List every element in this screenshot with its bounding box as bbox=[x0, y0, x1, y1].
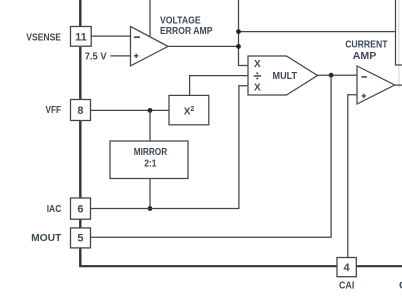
svg-text:MULT: MULT bbox=[273, 71, 298, 82]
svg-text:X: X bbox=[254, 82, 261, 93]
junction node MULT output bbox=[329, 73, 334, 78]
pin box 5 bbox=[71, 228, 91, 248]
svg-text:MOUT: MOUT bbox=[31, 232, 62, 244]
plus sign current amp bbox=[362, 94, 367, 99]
IC boundary bottom line bbox=[79, 265, 402, 267]
op-amp voltage error amp bbox=[131, 26, 169, 66]
svg-text:7.5 V: 7.5 V bbox=[85, 50, 107, 62]
junction node on bus at y=46.7 bbox=[236, 44, 241, 49]
wire: current amp output exits right bbox=[395, 84, 402, 86]
IC boundary left vertical (pin column) bbox=[79, 0, 81, 266]
wire: MULT output to current amp inverting input bbox=[318, 74, 358, 76]
wire: current amp + input down to pin 4 bbox=[348, 95, 357, 258]
pin box 8 bbox=[71, 100, 91, 121]
page edge faint line bbox=[398, 0, 400, 88]
pin box 11 bbox=[71, 27, 92, 47]
svg-text:11: 11 bbox=[75, 31, 87, 43]
svg-text:AMP: AMP bbox=[353, 50, 377, 62]
svg-text:5: 5 bbox=[77, 233, 83, 245]
pin box 6 bbox=[71, 198, 91, 219]
wire: MOUT pin 5 right and up to MULT output node bbox=[89, 75, 331, 237]
MULT input divide bbox=[254, 75, 261, 77]
svg-text:ERROR AMP: ERROR AMP bbox=[160, 25, 213, 37]
svg-text:CURRENT: CURRENT bbox=[345, 39, 388, 51]
svg-text:8: 8 bbox=[77, 105, 83, 117]
svg-text:X: X bbox=[254, 59, 261, 70]
X squared block bbox=[169, 95, 209, 124]
wire: vertical bus from top edge down to MULT top input bbox=[239, 0, 249, 66]
pin box 4 bbox=[337, 258, 356, 277]
svg-text:CAI: CAI bbox=[339, 279, 354, 291]
wire: voltage amp output to node bbox=[168, 45, 239, 47]
wire: X2 output up and over to MULT divide input bbox=[190, 76, 248, 96]
wire: pin 11 to voltage amp inverting input bbox=[89, 35, 131, 37]
svg-text:2:1: 2:1 bbox=[144, 157, 156, 169]
wire: mirror bottom down to IAC line bbox=[149, 179, 151, 209]
wire: node down to mirror top bbox=[149, 110, 151, 141]
svg-text:VFF: VFF bbox=[46, 104, 62, 116]
wire: vertical from top into voltage amp hypotenuse bbox=[149, 0, 151, 38]
junction node VFF line bbox=[148, 108, 153, 113]
svg-text:4: 4 bbox=[344, 262, 351, 274]
wire: IAC pin 6 right, up, into MULT bottom X input bbox=[89, 86, 248, 209]
wire: pin 8 to X2 block bbox=[89, 109, 169, 111]
junction node on bus at y=31.6 bbox=[236, 29, 241, 34]
wire: 7.5V to voltage amp non-inverting input bbox=[110, 55, 130, 57]
minus sign voltage amp bbox=[134, 36, 140, 38]
wire: top-right vertical with stub exiting right bbox=[396, 0, 402, 65]
plus sign voltage amp bbox=[134, 54, 139, 59]
svg-text:IAC: IAC bbox=[47, 203, 62, 215]
multiplier MULT block bbox=[248, 56, 318, 95]
minus sign current amp bbox=[362, 76, 367, 78]
junction node IAC line bbox=[148, 206, 153, 211]
op-amp current amp bbox=[357, 66, 395, 104]
svg-text:VSENSE: VSENSE bbox=[26, 31, 61, 43]
wire: horizontal from node to top-right corner bbox=[239, 31, 396, 33]
mirror block MIRROR 2:1 bbox=[110, 141, 188, 179]
svg-text:6: 6 bbox=[77, 204, 83, 216]
